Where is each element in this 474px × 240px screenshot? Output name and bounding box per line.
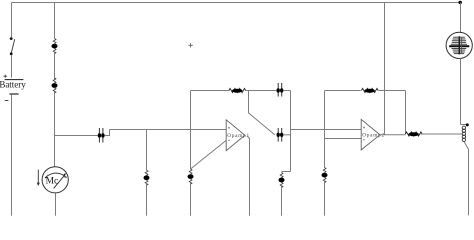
wire C2 to corner — [283, 90, 290, 92]
wire drop at x=146 — [146, 130, 148, 171]
wire mic drop from rail — [460, 3, 462, 33]
wire feedback top line 2 — [325, 90, 361, 92]
wire main input line to opamp1 — [110, 129, 227, 131]
wire jog to coil top — [461, 124, 468, 126]
wire between D1 and D2 — [54, 52, 56, 80]
wire opamp2 plus input line — [291, 129, 362, 131]
wire C3 right — [283, 134, 290, 136]
resistor R2 — [361, 88, 378, 92]
op-amp U1 — [226, 120, 249, 151]
wire top rail — [12, 2, 462, 4]
wire D6 to bottom — [324, 181, 326, 216]
diode D6 — [322, 168, 328, 183]
wire D3 to bottom — [146, 183, 148, 215]
junction dot top-right corner — [459, 1, 462, 4]
wire D2 down to motor — [54, 91, 56, 167]
microphone M1 — [446, 32, 472, 58]
capacitor C1 — [98, 128, 105, 143]
wire feedback riser / drop x=190.6 — [190, 91, 192, 170]
wire opamp2 output line — [380, 134, 406, 136]
wire output jog down — [249, 91, 275, 135]
svg-text:Opamp1: Opamp1 — [227, 133, 249, 139]
diode D5 — [279, 172, 285, 187]
wire feedback top line 1 — [191, 90, 230, 92]
wire switch to battery — [11, 55, 13, 78]
wire second column upper — [54, 3, 56, 39]
motor Mc — [42, 167, 68, 193]
diode D2 — [52, 78, 58, 93]
wire D5 to bottom — [281, 186, 283, 216]
diode D4 — [188, 169, 194, 184]
wire feedback riser 2 / drop x=324 — [324, 91, 326, 168]
wire R3 to speaker — [420, 133, 462, 135]
wire drop to output node — [405, 91, 407, 134]
wire battery to bottom — [11, 95, 13, 216]
diode D1 — [52, 39, 58, 54]
wire R1 to C2 — [245, 90, 277, 92]
resistor R3 — [405, 132, 422, 136]
wire slant to opamp1 minus input — [191, 140, 227, 169]
wire motor to bottom — [55, 193, 57, 216]
wire mic to speaker node — [460, 58, 462, 124]
wire jog to D5 — [282, 171, 291, 173]
switch S1 — [10, 37, 15, 55]
arrow beside motor — [37, 170, 40, 186]
wire R2 to corner — [379, 90, 406, 92]
wire vertical x=290 — [290, 91, 292, 172]
wire C1 to jog — [105, 130, 110, 136]
wire opamp1 output down — [247, 136, 250, 216]
junction dot coil top — [466, 123, 469, 126]
wire h-line left segment — [55, 135, 98, 137]
resistor R1 — [229, 88, 246, 92]
node cursor cross — [188, 43, 192, 47]
battery B1 — [0, 75, 26, 101]
op-amp U2 — [361, 119, 384, 149]
inductor L1 (coil) — [462, 126, 465, 141]
wire coil to bottom — [464, 142, 469, 216]
wire vertical x=384 from rail — [384, 3, 386, 135]
capacitor C2 — [277, 83, 284, 97]
wire opamp2 minus input line — [325, 138, 362, 140]
wire battery column upper — [11, 3, 13, 38]
wire D4 to bottom — [190, 182, 192, 215]
diode D3 — [144, 170, 150, 185]
svg-text:Battery: Battery — [0, 80, 26, 90]
svg-text:Opamp2: Opamp2 — [362, 133, 384, 139]
capacitor C3 — [277, 128, 284, 142]
